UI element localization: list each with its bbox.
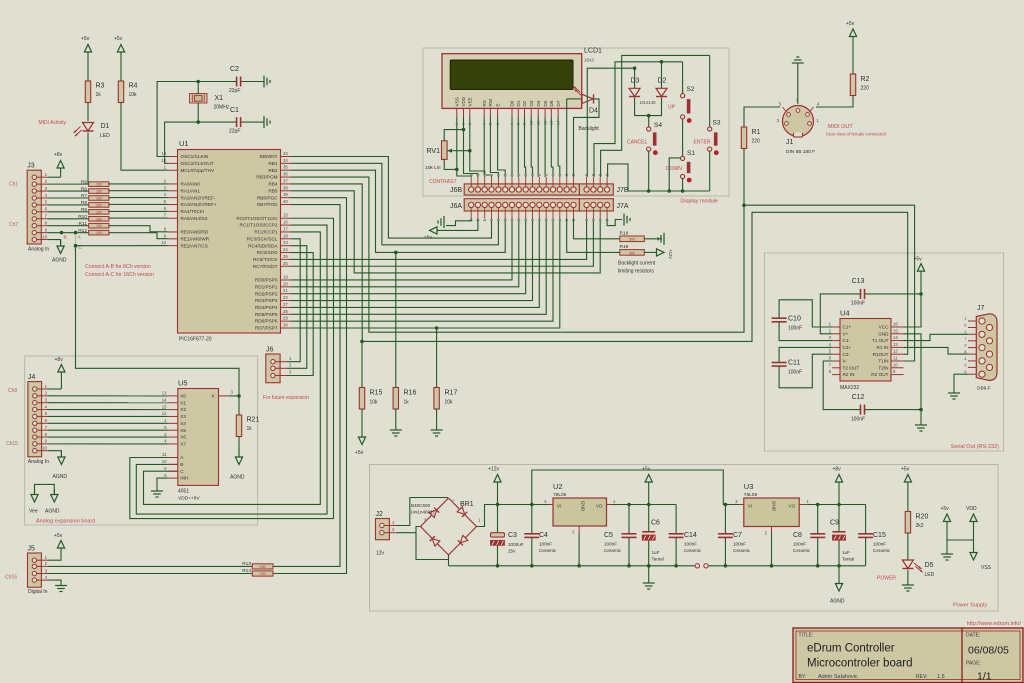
svg-text:AGND: AGND [52,258,67,264]
wire J3 pin7 [48,218,89,220]
wire S4 to rail [648,151,650,191]
svg-text:RA3/AN3/VREF+: RA3/AN3/VREF+ [181,202,217,207]
U4 pin 6 V- [832,360,840,362]
wire node C to RE2 [76,245,168,247]
wire R10-RA5 [109,217,168,219]
svg-text:100: 100 [96,203,102,207]
wire U3 gnd [771,534,773,566]
svg-text:220: 220 [752,139,761,145]
svg-text:D5: D5 [925,562,934,569]
svg-text:+8v: +8v [54,152,63,158]
wire RC5 to J6 pin3 [288,253,314,376]
U5 pin 14 X1 [168,402,178,404]
connector J7 DB9-F [976,314,997,381]
wire J2 pin1 to BR1 [397,498,448,526]
svg-text:Analog In: Analog In [28,247,49,253]
svg-text:1k: 1k [247,426,253,432]
diode D2 1N4148 [661,62,663,89]
svg-text:Backlight current: Backlight current [618,261,656,267]
resistor R6 [89,189,109,194]
svg-text:GND: GND [878,331,889,336]
svg-text:36: 36 [283,172,288,177]
connector J2 [376,519,390,540]
U4 pin 4 C2+ [832,346,840,348]
svg-text:C13: C13 [852,278,865,285]
svg-text:VDD: VDD [461,96,466,106]
svg-text:R6: R6 [81,186,87,192]
svg-text:Ceramic: Ceramic [873,548,891,553]
wire J3 pin3 [48,190,89,192]
svg-text:J6: J6 [266,347,274,354]
LED D5 POWER [902,560,913,569]
svg-text:Digital In: Digital In [28,589,48,595]
wire R9-RA4 [109,210,168,212]
svg-text:UP: UP [668,105,676,111]
svg-text:17: 17 [283,226,288,231]
ground (J6A pin1) [443,216,445,228]
junction VDD-RV1 [462,128,466,132]
svg-text:10: 10 [161,240,166,245]
svg-text:C10: C10 [788,316,801,323]
ground (J7) [948,392,960,394]
power flag +5v (serial) [920,271,922,277]
wire RD4 to J6A pin11 [291,219,539,308]
svg-text:Ch7: Ch7 [9,222,18,228]
svg-text:Ceramic: Ceramic [539,548,557,553]
U1 pin 6 RA4/T0CKI [168,210,178,212]
U1 pin 23 RC4/SDI/SDA [281,245,292,247]
flags Vee AGND [35,484,55,493]
wire LCD pin3 to J6B pin3 [470,117,485,177]
svg-text:100nF: 100nF [539,542,552,547]
svg-text:RD7/PSP7: RD7/PSP7 [255,326,278,331]
U1 pin 18 RC3/SCK/SCL [281,238,292,240]
svg-text:RB3/PGM: RB3/PGM [256,175,277,180]
svg-text:15: 15 [162,404,167,409]
wire J7B pin1 net DOWN [587,68,634,177]
wire J3 pin4 [48,197,89,199]
wire diodes to S4 [635,98,662,116]
wire J3 pin2 [48,183,89,185]
svg-text:100: 100 [96,217,102,221]
wire LCD pin7 to J6B pin7 [511,117,513,177]
connector J6 [266,354,280,383]
wire RD1 to J6A pin8 [291,219,519,287]
svg-text:X2: X2 [180,407,186,412]
svg-text:R5: R5 [81,179,87,185]
svg-text:22: 22 [283,295,288,300]
wire U2 gnd [578,533,580,566]
svg-text:R2 IN: R2 IN [843,372,855,377]
ground (D5) [902,584,914,586]
wire [838,488,840,505]
svg-text:Admir Salahovic: Admir Salahovic [818,674,858,680]
IC U1 PIC16F877-20 [178,150,281,334]
ground (C1) [263,116,265,128]
wire RD2 to J6A pin9 [291,219,526,294]
svg-text:13: 13 [893,342,898,347]
svg-text:T2 OUT: T2 OUT [843,365,860,370]
wire OSC1 net [157,82,237,157]
svg-text:Ceramic: Ceramic [793,548,811,553]
svg-text:OSC2/CLKOUT: OSC2/CLKOUT [181,161,214,166]
wire J7A pin4 to ground [607,219,622,226]
J7 pin 8 [968,353,977,355]
svg-text:100: 100 [96,183,102,187]
wire RD3 to J6A pin10 [291,219,533,301]
resistor R18 [620,236,645,242]
svg-text:DATE:: DATE: [966,633,980,639]
svg-text:25v: 25v [508,549,516,554]
power flag VDD [973,522,975,528]
svg-text:RD4/PSP4: RD4/PSP4 [255,305,278,310]
svg-text:D3: D3 [529,100,534,106]
svg-text:U5: U5 [178,379,188,388]
wire J4 pin8 to X6 [48,436,168,438]
IC U5 4051 [178,389,219,486]
J7 pin 4 [968,360,977,362]
svg-text:C2: C2 [230,66,239,73]
svg-text:POWER: POWER [877,576,896,582]
svg-text:RB7/PGD: RB7/PGD [257,202,278,207]
svg-text:1/1: 1/1 [977,671,992,683]
svg-text:Display module: Display module [680,199,718,205]
U1 pin 14 OSC2/CLKOUT [168,162,178,164]
wire [87,133,89,185]
wire T1OUT to J7 [904,334,968,340]
wire RC6 to J7A pin1 [291,219,587,260]
U1 pin 35 RB2 [281,169,292,171]
svg-text:RC3/SCK/SCL: RC3/SCK/SCL [247,236,278,241]
U4 pin 1 C1+ [832,326,840,328]
wire R8-RA3 [109,203,168,205]
resistor R12 [89,230,109,235]
resistor R19 [620,250,645,256]
wire LCD pin4 to J6B pin4 [484,117,491,177]
svg-text:BR1: BR1 [460,501,474,508]
svg-text:MIDI Activity: MIDI Activity [38,120,66,126]
U4 pin 11 T1IN [891,360,904,362]
svg-text:27: 27 [283,302,288,307]
wire [907,488,909,512]
svg-text:R21: R21 [247,417,260,424]
wire LCD pin10 to J6B pin10 [531,117,532,177]
svg-text:10: 10 [42,234,47,239]
svg-text:C6: C6 [651,520,660,527]
J7 pin 2 [968,333,977,335]
svg-text:23: 23 [283,240,288,245]
wire stub [669,158,680,191]
connector J7B [579,184,613,195]
U1 pin 4 RA2/AN2/VREF- [168,197,178,199]
connector J7A [579,199,613,211]
svg-text:12v: 12v [376,551,385,557]
J7 pin 1 [968,320,977,322]
svg-text:100nF: 100nF [788,326,802,332]
wire J5 pin3 to R14 [48,573,252,575]
svg-text:R10: R10 [78,214,87,220]
junction [196,80,200,84]
wire R2 to J1 pin4 [816,96,853,108]
svg-text:VO: VO [596,504,603,509]
wire J5 pin4 to ground [48,580,61,585]
svg-text:100: 100 [96,190,102,194]
svg-text:10k: 10k [370,400,379,406]
svg-text:100: 100 [96,196,102,200]
capacitor C11 [772,362,787,364]
connector J5 [28,553,42,587]
svg-text:1.5: 1.5 [937,674,945,680]
svg-text:Ch1: Ch1 [9,182,18,188]
svg-text:C8: C8 [793,532,802,539]
junction VSS-RV1 [455,168,459,172]
junction TX [742,203,746,207]
wire RC4 to J6 pin2 [288,246,307,369]
svg-text:Serial Out (RS-232): Serial Out (RS-232) [951,444,999,450]
wire J5 pin2 to R13 [48,565,252,567]
capacitor C7 [724,505,726,534]
ground (R17) [431,429,443,431]
svg-text:REV:: REV: [916,674,927,680]
svg-text:22pF: 22pF [229,129,240,135]
capacitor C13 [860,289,862,299]
power flag +5v (U2) [648,482,650,488]
wire RD7 to J6A pin14 [291,219,560,329]
svg-text:100nF: 100nF [684,542,697,547]
wire [60,378,62,390]
wire LCD pin2 to J6B pin2 [464,117,478,177]
U4 pin 8 R2 IN [832,374,840,376]
regulator U2 78L05 [553,498,607,526]
svg-text:Ch16: Ch16 [5,575,17,581]
U5 pin 5 X5 [168,429,178,431]
wire RB6 to R14 [273,198,347,574]
regulator U3 78L08 [744,498,799,527]
wire R5-RA0 [109,183,168,185]
junction [647,114,651,118]
wire J4 pin10 to AGND [48,451,61,455]
svg-text:X1: X1 [215,95,224,102]
capacitor C9 tantal [838,505,840,532]
node C [74,244,78,248]
svg-text:VCC: VCC [879,325,890,330]
ground flag AGND (J4) [60,452,62,458]
svg-text:Ch8: Ch8 [8,388,17,394]
svg-text:X7: X7 [180,442,186,447]
svg-text:For future expansion: For future expansion [263,395,309,401]
U5 pin 1 X4 [168,422,178,424]
svg-text:R2: R2 [861,76,870,83]
svg-text:20MHz: 20MHz [214,105,230,111]
svg-text:06/08/05: 06/08/05 [968,645,1009,657]
svg-text:37: 37 [283,178,288,183]
svg-text:LED: LED [925,572,935,578]
wire [87,103,89,122]
wire S1 bottom [682,179,684,191]
svg-text:eDrum Controller: eDrum Controller [807,643,895,655]
U1 pin 26 RC7/RX/DT [281,265,292,267]
svg-text:16x2: 16x2 [584,58,594,63]
U5 pin 10 B [168,463,178,465]
svg-text:78L08: 78L08 [744,492,758,498]
wire J4 pin6 to X4 [48,422,168,424]
svg-text:D7: D7 [556,100,561,106]
svg-text:Microcontroler board: Microcontroler board [807,658,912,670]
svg-text:RB1: RB1 [268,161,278,166]
wire button common rail [628,190,710,192]
wire RD5 to J6A pin12 [291,219,546,315]
svg-text:R7: R7 [81,193,87,199]
svg-text:100: 100 [96,231,102,235]
svg-text:AGND: AGND [830,599,845,605]
svg-text:RA5/AN4/SS: RA5/AN4/SS [181,216,208,221]
svg-text:J5: J5 [28,546,36,553]
capacitor C5 [628,505,630,534]
wire J4 pin2 to X0 [48,395,168,397]
LED D4 backlight [567,98,582,100]
svg-text:AGND: AGND [53,474,68,480]
U5 pin 12 X3 [168,415,178,417]
svg-text:U4: U4 [840,309,850,318]
wire RB4 RX net [291,184,908,354]
svg-text:100nF: 100nF [873,542,886,547]
svg-text:U1: U1 [179,139,189,148]
svg-text:1uF: 1uF [652,550,660,555]
svg-text:+8v: +8v [833,467,842,473]
svg-text:X3: X3 [180,414,186,419]
svg-text:RB4: RB4 [268,182,278,187]
U1 pin 17 RC2/CCP1 [281,231,292,233]
svg-text:R8: R8 [81,200,87,206]
section box Power Supply [370,465,999,612]
svg-text:C7: C7 [733,532,742,539]
svg-text:CONTRAST: CONTRAST [429,179,457,185]
svg-text:B: B [64,234,67,240]
U1 pin 16 RC1/T1OSI/CCP2 [281,224,292,226]
svg-text:R9: R9 [81,207,87,213]
svg-text:13: 13 [162,391,167,396]
svg-text:X5: X5 [180,428,186,433]
svg-text:VDD=+8V: VDD=+8V [178,496,200,502]
svg-text:RD6/PSP6: RD6/PSP6 [255,319,278,324]
svg-text:R18: R18 [620,231,629,237]
junction R15 [360,340,364,344]
svg-text:39: 39 [283,192,288,197]
power flag +8v (J4) [60,372,62,378]
ground flag AGND (J3) [60,241,62,247]
wire LCD pin8 to J6B pin8 [517,117,519,177]
U5 pin 4 X7 [168,443,178,445]
wire R6-RA1 [109,190,168,192]
svg-text:R12: R12 [78,228,87,234]
svg-text:TITLE:: TITLE: [799,633,814,639]
wire +8v rail [805,504,865,506]
wire J3 pin10 to AGND [48,240,61,244]
svg-text:10: 10 [893,362,898,367]
svg-text:S2: S2 [687,86,695,93]
ground (J1 pin2) [792,62,804,64]
svg-text:+12v: +12v [488,467,499,473]
wire S2 top [682,62,684,94]
svg-text:MAX232: MAX232 [840,385,859,391]
wire [60,174,62,178]
svg-text:C4: C4 [539,532,548,539]
U4 pin 7 T2 OUT [832,367,840,369]
svg-text:RB6/PGC: RB6/PGC [257,195,278,200]
jumper link [695,564,699,568]
svg-text:R1: R1 [752,129,761,136]
svg-text:B: B [180,462,183,467]
wire INH to ground [157,478,168,491]
ground (C2) [263,76,265,88]
U1 pin 37 RB4 [281,183,292,185]
svg-text:MCLR/Vpp/THV: MCLR/Vpp/THV [181,168,215,173]
U5 pin 15 X2 [168,409,178,411]
svg-text:D5: D5 [543,100,548,106]
ground (J7A pin4) [623,214,625,226]
svg-text:35: 35 [283,165,288,170]
wire R11-RE0 [109,226,168,232]
svg-text:C15: C15 [873,532,886,539]
wire node C to X [76,246,240,396]
U4 pin 15 GND [891,333,904,335]
svg-text:28: 28 [283,309,288,314]
svg-text:LED: LED [100,133,110,139]
push button S2 UP [681,94,685,98]
wire [241,81,264,83]
connector J4 [28,382,42,457]
svg-text:OSC1/CLKIN: OSC1/CLKIN [181,154,209,159]
U4 pin 5 C2- [832,353,840,355]
svg-text:R4: R4 [129,83,138,90]
U4 pin 2 V+ [832,333,840,335]
svg-text:RA2/AN2/VREF-: RA2/AN2/VREF- [181,195,216,200]
capacitor C8 [817,505,819,534]
diode D3 1N4148 [634,68,636,88]
svg-text:S4: S4 [654,122,662,129]
wire C13 right [865,293,922,295]
U1 pin 40 RB7/PGD [281,204,292,206]
wire OSC2 net [165,122,237,163]
svg-text:DOWN: DOWN [666,166,682,172]
wire LCD pin1 to J6B pin1 [457,117,471,177]
resistor R11 [89,223,109,228]
resistor R8 [89,203,109,208]
svg-text:J2: J2 [376,511,384,518]
power flag +8v (U3) [838,482,840,488]
U5 pin 2 X6 [168,436,178,438]
svg-text:DIN 5B 180 F: DIN 5B 180 F [786,149,815,155]
wire J6A pin1 to ground [446,219,471,226]
svg-text:http://www.edrum.info/: http://www.edrum.info/ [967,621,1022,627]
wire [946,527,948,554]
wire J1 pin5 to R1 [744,107,780,127]
svg-text:4051: 4051 [178,489,189,495]
svg-text:10: 10 [162,459,167,464]
svg-text:(4x1n4001): (4x1n4001) [411,510,435,515]
ground (R16) [390,429,402,431]
svg-text:C1-: C1- [843,338,851,343]
wire [797,63,799,104]
wire [920,277,922,294]
svg-text:78L05: 78L05 [553,492,567,498]
svg-text:J4: J4 [28,374,36,381]
resistor R10 [89,216,109,221]
U1 pin 5 RA3/AN3/VREF+ [168,204,178,206]
U4 pin 10 T2IN [891,367,904,369]
U1 pin 9 RE1/AN6/WR [168,238,178,240]
svg-text:S1: S1 [687,150,695,157]
